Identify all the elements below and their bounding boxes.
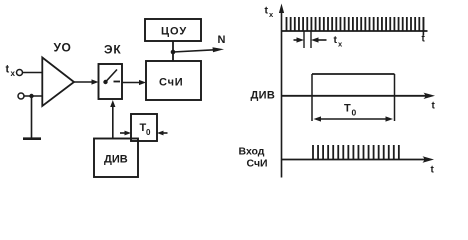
svg-text:t: t — [265, 5, 269, 17]
terminal input 2 — [18, 93, 24, 99]
node tx input label — [6, 64, 16, 79]
svg-text:t: t — [422, 34, 426, 45]
wire DIV to EK — [112, 103, 114, 139]
ground — [23, 137, 41, 140]
terminal input 1 — [17, 70, 23, 76]
label tx on axis — [265, 5, 275, 20]
row1 end marker tick — [422, 17, 424, 36]
svg-text:x: x — [338, 40, 343, 49]
svg-text:ДИВ: ДИВ — [251, 90, 276, 102]
vertical axis — [281, 8, 283, 178]
row1 pulse ticks — [287, 17, 424, 31]
svg-text:ДИВ: ДИВ — [104, 154, 128, 166]
label T0 — [140, 122, 152, 137]
svg-text:Вход: Вход — [239, 146, 265, 158]
wire measure arrow right — [315, 39, 327, 41]
svg-text:x: x — [11, 69, 16, 78]
node junction on input2 — [29, 94, 33, 98]
node junction N tap — [171, 50, 176, 55]
row3 burst ticks — [313, 145, 399, 160]
wire input1 to amplifier — [23, 72, 43, 74]
svg-text:СчИ: СчИ — [159, 77, 184, 89]
op-amp UO (triangle) — [42, 58, 74, 107]
wire row1 baseline — [282, 30, 428, 32]
wire TsOU to SchI — [172, 41, 174, 61]
wire EK to SchI — [122, 82, 143, 84]
wire arrow into T0 right — [160, 132, 168, 134]
svg-text:x: x — [269, 10, 274, 19]
label T0 measure — [344, 103, 357, 118]
block EK (electronic key) — [99, 64, 123, 99]
svg-text:t: t — [334, 34, 338, 46]
switch arm inside EK — [106, 70, 118, 83]
block T0 (interval setting) — [131, 114, 157, 141]
wire input2 to amplifier — [24, 95, 42, 97]
svg-text:0: 0 — [352, 108, 357, 118]
wire to ground — [31, 96, 33, 138]
svg-text:СчИ: СчИ — [247, 158, 268, 170]
switch fixed contact dash inside EK — [114, 81, 121, 83]
svg-text:t: t — [431, 165, 435, 176]
svg-text:N: N — [218, 34, 226, 46]
svg-text:T: T — [344, 103, 351, 115]
label Vkhod SchI row — [239, 146, 268, 170]
gate pulse T0 on row2 — [311, 74, 313, 121]
svg-text:t: t — [6, 64, 10, 76]
svg-text:ЭК: ЭК — [104, 43, 121, 57]
wire N output arrow — [173, 50, 219, 52]
svg-text:ЦОУ: ЦОУ — [161, 26, 187, 38]
label tx period — [334, 34, 344, 49]
wire measure arrow left — [294, 39, 301, 41]
switch contact dot inside EK — [103, 80, 107, 84]
wire amplifier to EK — [74, 81, 95, 83]
svg-text:0: 0 — [146, 128, 151, 137]
block TsOU (display) — [145, 19, 201, 41]
svg-text:t: t — [432, 101, 436, 112]
wire row3 axis — [282, 159, 426, 161]
block SchI (counter) — [146, 61, 201, 100]
wire T0 measure arrow — [316, 118, 390, 120]
block DIV (frequency divider) — [94, 139, 138, 178]
wire arrow into T0 left — [120, 132, 128, 134]
svg-text:УО: УО — [54, 41, 72, 55]
wire row2 axis — [282, 95, 427, 97]
node tx period measure lines — [303, 31, 305, 48]
